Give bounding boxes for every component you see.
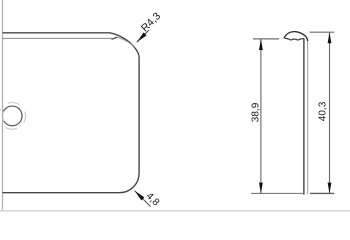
svg-text:R4,3: R4,3 <box>139 10 163 34</box>
countersink dashed circle <box>0 103 26 130</box>
arrowhead 4,8 <box>135 191 145 201</box>
hem inner edge line <box>3 37 112 39</box>
arrowhead R4,3 <box>137 32 147 42</box>
left border line <box>2 0 4 211</box>
dimension line 38,9 <box>260 39 262 194</box>
arrow 38,9 top <box>259 39 263 50</box>
leader line R4,3 <box>137 30 149 42</box>
arrow 40,3 bottom <box>328 183 332 194</box>
profile left leg line <box>303 39 305 195</box>
svg-text:38,9: 38,9 <box>251 102 262 122</box>
leader line 4,8 <box>135 191 151 207</box>
svg-text:4,8: 4,8 <box>144 191 162 209</box>
bottom separator line <box>0 210 350 212</box>
profile right leg line <box>307 41 309 194</box>
arrow 38,9 bottom <box>259 183 263 194</box>
extension line top 38,9 <box>253 38 279 40</box>
hem inner corner curve <box>117 37 134 47</box>
arrow 40,3 top <box>328 32 332 43</box>
dimension line 40,3 <box>329 32 331 193</box>
svg-text:40,3: 40,3 <box>318 101 329 121</box>
profile cap outline <box>284 32 308 42</box>
hole circle <box>2 106 22 126</box>
hole circle left fade <box>2 112 4 122</box>
hem break mark <box>112 37 118 39</box>
profile cap underside <box>284 38 304 40</box>
plan view outer outline <box>3 33 140 193</box>
extension line bottom <box>251 192 304 194</box>
extension line top 40,3 <box>310 31 335 33</box>
extension line bottom right part <box>310 192 335 194</box>
